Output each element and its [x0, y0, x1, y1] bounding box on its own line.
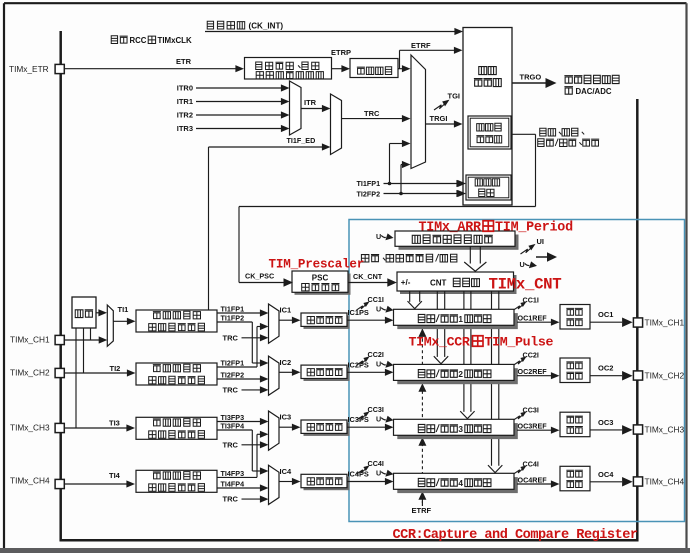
svg-text:4: 4 [458, 479, 463, 488]
svg-text:ETRF: ETRF [411, 41, 431, 50]
wire ARR to CNT hollow arrow [469, 247, 471, 264]
pin pad TIMx_CH3 right [633, 425, 642, 434]
svg-text:ITR: ITR [304, 98, 317, 107]
wire IC3 [279, 426, 295, 428]
input filter box [350, 59, 398, 78]
svg-text:TIMx_CH1: TIMx_CH1 [10, 335, 50, 345]
svg-text:TIMx_ARR: TIMx_ARR [419, 221, 482, 236]
prescaler box ch2 [304, 368, 350, 381]
svg-text:ITR2: ITR2 [177, 111, 193, 120]
svg-text:CK_CNT: CK_CNT [353, 272, 383, 281]
output control box ch1 [560, 305, 590, 330]
svg-text:TI3FP4: TI3FP4 [221, 422, 245, 431]
wire IC4 [279, 481, 295, 483]
svg-text:CC1I: CC1I [368, 295, 384, 304]
event CC4I right [514, 467, 525, 474]
capture compare register 3 box [397, 423, 518, 439]
svg-text:TIMx_CH4: TIMx_CH4 [10, 476, 50, 486]
pin pad TIMx_CH1 right [633, 318, 642, 327]
svg-text:TI2: TI2 [110, 364, 121, 373]
mux TRC selector [331, 94, 342, 155]
svg-text:TRC: TRC [223, 333, 239, 342]
svg-text:UI: UI [537, 237, 545, 246]
capture compare register 2 box [397, 368, 518, 384]
event CC4I left [357, 467, 368, 474]
svg-text:CK_PSC: CK_PSC [245, 272, 274, 281]
wire ETRF [398, 68, 405, 70]
svg-text:OC2REF: OC2REF [518, 367, 548, 376]
svg-text:ETRP: ETRP [331, 48, 351, 57]
svg-text:ETR: ETR [176, 57, 192, 66]
svg-text:OC1REF: OC1REF [518, 314, 548, 323]
svg-text:TI4FP4: TI4FP4 [221, 480, 245, 489]
svg-text:1: 1 [458, 315, 463, 324]
svg-text:3: 3 [458, 425, 463, 434]
svg-text:DAC/ADC: DAC/ADC [576, 87, 612, 96]
event TGI [434, 101, 448, 110]
svg-text:OC4: OC4 [598, 470, 614, 479]
wires CNT to capture compare registers [409, 291, 411, 302]
mux trigger selector [411, 55, 426, 169]
wire TI1FP2 to IC2 mux [217, 321, 252, 323]
svg-text:TI4: TI4 [109, 471, 121, 480]
svg-text:TRGO: TRGO [520, 73, 542, 82]
event CC3I left [357, 413, 368, 420]
output control box ch2 [560, 358, 590, 383]
svg-text:TI2FP2: TI2FP2 [221, 371, 245, 380]
svg-text:U: U [376, 468, 381, 477]
wire TI2FP1 to IC1 mux [217, 366, 257, 368]
wire CK_INT to trigger controller [205, 31, 457, 33]
svg-text:U: U [376, 359, 381, 368]
mux IC3 select [269, 411, 280, 450]
prescaler box ch4 [304, 477, 350, 490]
wire TI3FP3 straight [217, 421, 263, 423]
svg-text:OC3REF: OC3REF [518, 422, 548, 431]
input filter edge detector box ch1 [136, 310, 217, 332]
output control box ch3 [560, 412, 590, 437]
wire slave mode control to PSC [511, 133, 536, 135]
svg-text:TRGI: TRGI [430, 114, 448, 123]
input filter edge detector box ch2 [136, 363, 217, 385]
svg-text:TI4FP3: TI4FP3 [221, 469, 245, 478]
svg-text:TIMx_CCR: TIMx_CCR [409, 335, 470, 350]
input filter edge detector box ch3 [136, 417, 217, 439]
svg-text:TRC: TRC [364, 109, 380, 118]
wire XOR taps [75, 328, 77, 428]
svg-text:ITR3: ITR3 [177, 124, 193, 133]
svg-text:TI1FP2: TI1FP2 [221, 314, 245, 323]
wire IC1 [279, 319, 295, 321]
svg-text:TI3: TI3 [109, 419, 120, 428]
event CC1I right [514, 303, 525, 310]
svg-text:CNT: CNT [430, 278, 447, 287]
svg-text:TGI: TGI [448, 92, 461, 101]
svg-text:TIMx_CH2: TIMx_CH2 [10, 368, 50, 378]
input filter edge detector box ch4 [136, 470, 217, 492]
svg-text:OC1: OC1 [598, 310, 613, 319]
capture compare register 1 box [397, 313, 518, 329]
capture compare register 4 box [397, 477, 518, 493]
svg-text:TIM_Prescaler: TIM_Prescaler [269, 257, 365, 271]
svg-text:TI1F_ED: TI1F_ED [287, 136, 316, 145]
svg-text:CC3I: CC3I [523, 405, 539, 414]
svg-text:IC1: IC1 [280, 306, 292, 315]
svg-text:PSC: PSC [312, 274, 329, 283]
svg-text:CC2I: CC2I [523, 351, 539, 360]
prescaler box PSC [295, 274, 351, 295]
svg-text:(CK_INT): (CK_INT) [249, 22, 284, 31]
node CK_INT internal clock label [207, 21, 213, 29]
wire TI1FP1 straight [217, 312, 263, 314]
mux IC4 select [269, 465, 280, 504]
svg-text:U: U [376, 232, 381, 241]
svg-text:OC3: OC3 [598, 418, 613, 427]
svg-text:TIM_Pulse: TIM_Pulse [485, 335, 554, 350]
svg-text:IC2: IC2 [280, 358, 292, 367]
left bus line [59, 31, 62, 541]
right bus line [636, 99, 639, 541]
wire TI4FP4 straight [217, 487, 263, 489]
svg-text:CC4I: CC4I [523, 459, 539, 468]
svg-text:TIMxCLK: TIMxCLK [158, 36, 192, 45]
svg-text:RCC: RCC [130, 36, 147, 45]
slave mode controller box [468, 116, 511, 149]
svg-text:TI2FP2: TI2FP2 [357, 189, 381, 198]
auto-reload register box TIMx_ARR [399, 235, 519, 250]
wire TI1 [113, 320, 129, 322]
svg-text:TIMx_ETR: TIMx_ETR [9, 64, 49, 74]
svg-text:ETRF: ETRF [412, 506, 432, 515]
polarity selection edge detector prescaler box [245, 58, 332, 80]
encoder interface box [466, 175, 511, 200]
label from RCC TIMxCLK [111, 36, 117, 44]
svg-text:CC1I: CC1I [523, 295, 539, 304]
svg-text:IC4PS: IC4PS [348, 470, 369, 479]
XOR box [72, 297, 96, 328]
prescaler box ch3 [304, 423, 350, 436]
prescaler box ch1 [304, 316, 350, 329]
wire IC2 [279, 371, 295, 373]
svg-text:TIMx_CH2: TIMx_CH2 [645, 371, 685, 381]
svg-text:IC3: IC3 [280, 413, 292, 422]
svg-text:TIMx_CH4: TIMx_CH4 [645, 477, 685, 487]
wire TI4FP3 to IC3 mux [217, 476, 257, 478]
event UI [521, 245, 534, 254]
mux TI1 xor select [107, 305, 113, 346]
counter box CNT [400, 275, 517, 294]
svg-text:U: U [376, 304, 381, 313]
svg-text:U: U [520, 260, 525, 269]
svg-text:ITR1: ITR1 [177, 97, 193, 106]
svg-text:TRC: TRC [223, 386, 239, 395]
bottom bus line [60, 539, 639, 542]
svg-text:CC4I: CC4I [368, 459, 384, 468]
svg-text:TIMx_CH3: TIMx_CH3 [645, 425, 685, 435]
svg-text:TI1FP1: TI1FP1 [221, 305, 245, 314]
mux IC2 select [269, 356, 280, 395]
mux IC1 select [269, 304, 280, 343]
wire TI3FP4 to IC4 mux [217, 429, 252, 431]
mux ITR selector [290, 81, 302, 135]
outer border frame [4, 2, 687, 4]
svg-text:OC4REF: OC4REF [518, 475, 548, 484]
svg-text:+/-: +/- [401, 278, 411, 287]
event CC1I left [357, 303, 368, 310]
svg-text:TRC: TRC [223, 440, 239, 449]
label stop clear up down [361, 255, 368, 262]
svg-text:TI1FP1: TI1FP1 [357, 179, 381, 188]
event CC2I right [514, 358, 525, 365]
blue highlight rectangle [349, 220, 685, 522]
wire TI2FP2 straight [217, 378, 263, 380]
svg-text:TIM_Period: TIM_Period [495, 221, 573, 236]
svg-text:TI1: TI1 [118, 305, 129, 314]
wire ETRP [332, 68, 345, 70]
output control box ch4 [560, 466, 590, 491]
trigger controller box U1 [463, 28, 512, 206]
svg-text:OC2: OC2 [598, 364, 613, 373]
svg-text:ITR0: ITR0 [177, 84, 193, 93]
svg-text:CCR:Capture and Compare Regist: CCR:Capture and Compare Register [393, 528, 638, 543]
svg-text:TI2FP1: TI2FP1 [221, 359, 245, 368]
svg-text:IC4: IC4 [280, 467, 293, 476]
dashed capture line ETRF [421, 327, 423, 503]
svg-text:U: U [376, 414, 381, 423]
svg-text:CC3I: CC3I [368, 405, 384, 414]
svg-text:TIMx_CH3: TIMx_CH3 [10, 423, 50, 433]
event CC3I right [514, 413, 525, 420]
svg-text:2: 2 [458, 370, 463, 379]
svg-text:TIMx_CH1: TIMx_CH1 [645, 318, 685, 328]
pin pad TIMx_CH4 right [633, 477, 642, 486]
svg-text:TRC: TRC [223, 495, 239, 504]
pin pad TIMx_CH2 right [633, 371, 642, 380]
svg-text:TIMx_CNT: TIMx_CNT [489, 276, 562, 294]
wire XOR output [96, 312, 101, 314]
svg-text:CC2I: CC2I [368, 350, 384, 359]
event CC2I left [357, 358, 368, 365]
